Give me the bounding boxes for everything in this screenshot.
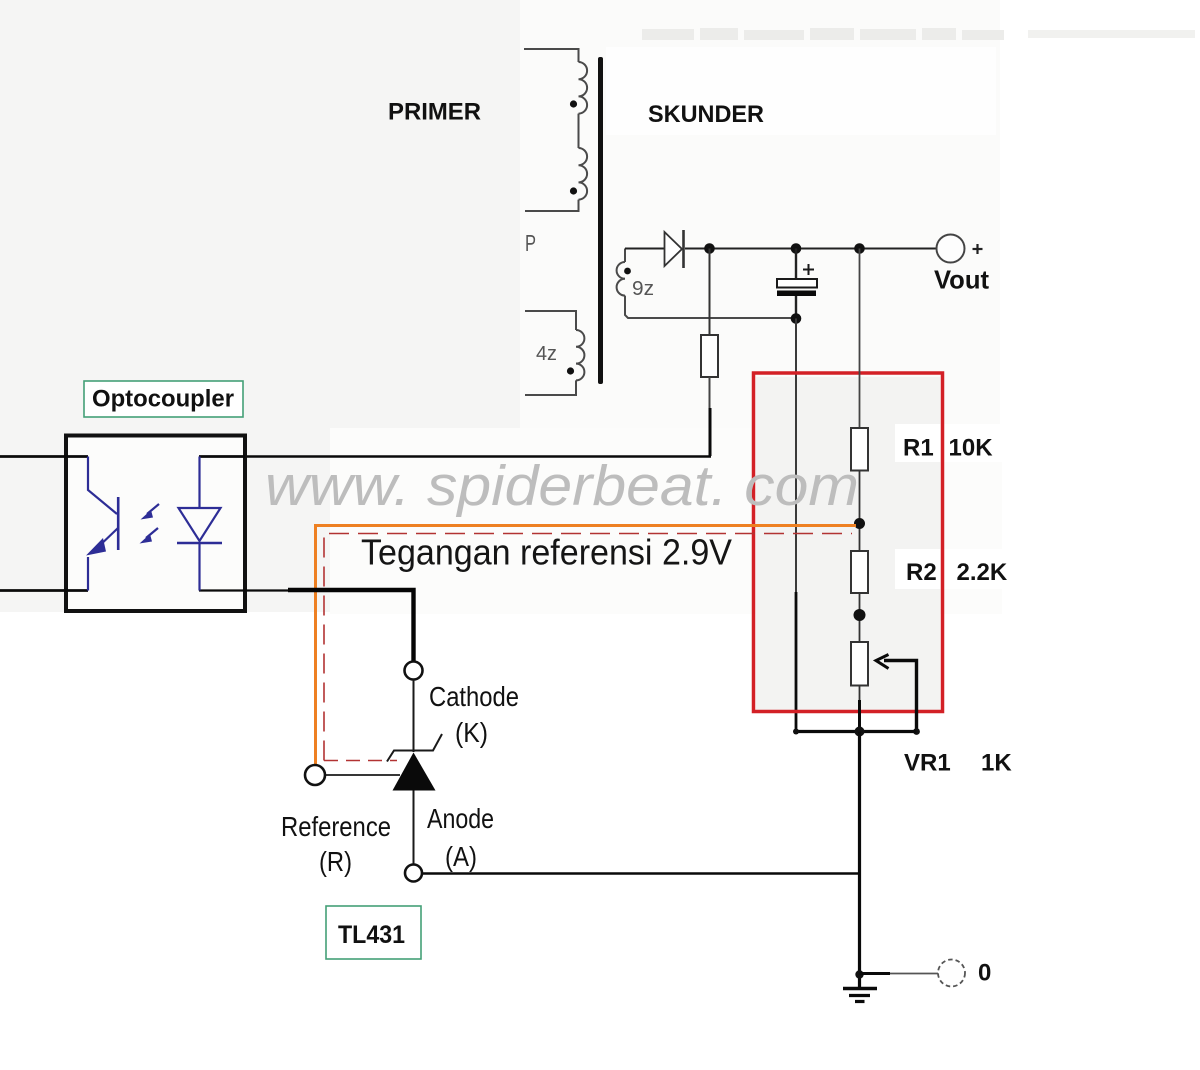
svg-text:R2: R2 <box>906 559 937 586</box>
svg-text:P: P <box>525 230 536 256</box>
wire junction1 down to resistor <box>709 249 711 336</box>
node junction 1 <box>704 243 715 254</box>
svg-text:R1: R1 <box>903 435 934 462</box>
TL431 triangle <box>393 753 436 791</box>
wire junction3 down to R1 <box>859 249 861 429</box>
wire opto top rail <box>245 455 711 458</box>
TL431 label box <box>326 906 421 959</box>
transformer T1 core <box>598 57 603 384</box>
transformer T1 secondary winding (9z) <box>617 249 791 319</box>
potentiometer VR1 <box>851 642 868 686</box>
capacitor C1 <box>777 249 817 319</box>
ground <box>843 989 877 1002</box>
node cap bottom junction <box>791 313 802 324</box>
wire anode <box>413 791 415 865</box>
wire bottom rail <box>796 730 917 733</box>
phase dot lower primary <box>567 367 574 374</box>
node R2-VR1 junction <box>854 609 866 621</box>
svg-text:4z: 4z <box>536 343 557 365</box>
svg-text:Cathode: Cathode <box>429 681 519 712</box>
optocoupler label box <box>84 381 243 417</box>
svg-text:Anode: Anode <box>427 803 494 834</box>
wire opto right bottom <box>199 589 292 591</box>
svg-text:(K): (K) <box>455 717 488 748</box>
wire diode to Vout (main output rail) <box>685 248 936 250</box>
wire VR1 down thick <box>858 700 861 732</box>
svg-text:1K: 1K <box>981 750 1012 777</box>
svg-text:(R): (R) <box>319 846 352 877</box>
optocoupler LED D2 <box>177 457 222 591</box>
svg-text:9z: 9z <box>632 278 654 300</box>
svg-text:10K: 10K <box>949 435 994 462</box>
wire anode rail <box>423 872 860 874</box>
svg-text:0: 0 <box>978 960 991 987</box>
node R1-R2 junction <box>854 518 865 529</box>
svg-text:Vout: Vout <box>934 265 989 295</box>
wire thick down to opto rail <box>709 408 712 456</box>
wire opto right top (inside) <box>199 455 245 458</box>
resistor R feed (to optocoupler) <box>701 335 718 377</box>
wire opto to TL431 thick <box>288 590 414 661</box>
wire cap junction down thick <box>795 592 798 732</box>
optocoupler U1 box <box>66 436 245 612</box>
node ground junction <box>855 970 863 978</box>
red annotation box <box>754 373 943 712</box>
svg-text:Tegangan referensi 2.9V: Tegangan referensi 2.9V <box>361 532 732 573</box>
wire R1 to node <box>859 471 861 552</box>
TL431 reference terminal circle <box>305 765 325 785</box>
orange annotation path <box>316 526 857 777</box>
wire secondary to diode <box>625 248 664 250</box>
phase dot upper primary second <box>570 187 577 194</box>
svg-text:(A): (A) <box>445 841 477 872</box>
wire resistor down <box>709 377 711 410</box>
svg-text:2.2K: 2.2K <box>957 559 1008 586</box>
svg-text:Optocoupler: Optocoupler <box>92 386 234 413</box>
resistor R2 <box>851 551 868 593</box>
node junction 2 <box>791 243 802 254</box>
red dashed reference stub <box>324 760 397 762</box>
diode D1 <box>665 230 684 268</box>
wire cap junction down <box>795 319 797 595</box>
wire opto left bottom <box>0 589 88 592</box>
svg-text:Reference: Reference <box>281 811 391 842</box>
light arrow 2 <box>140 528 159 544</box>
Vout terminal <box>937 235 983 263</box>
wire opto left top <box>0 455 88 458</box>
svg-text:www. spiderbeat. com: www. spiderbeat. com <box>265 454 859 518</box>
svg-text:VR1: VR1 <box>904 750 951 777</box>
transformer T1 primary winding (upper) <box>524 49 587 211</box>
wire cathode to bar <box>413 680 415 753</box>
node bottom rail junction <box>855 727 865 737</box>
VR1 wiper arrow <box>876 655 917 732</box>
svg-text:PRIMER: PRIMER <box>388 99 481 126</box>
wire reference <box>325 774 400 776</box>
TL431 cathode terminal circle <box>405 662 423 680</box>
TL431 anode terminal circle <box>405 865 422 882</box>
wire ground drop <box>858 732 861 989</box>
transformer T1 primary winding (lower, 4z) <box>525 311 584 395</box>
phase dot upper primary <box>570 100 577 107</box>
svg-text:TL431: TL431 <box>338 921 405 949</box>
phase dot secondary <box>624 268 631 275</box>
svg-text:SKUNDER: SKUNDER <box>648 101 764 128</box>
light arrow 1 <box>141 504 160 520</box>
TL431 cathode bar with ticks <box>387 734 442 762</box>
wire VR1 down <box>859 686 861 705</box>
node bottom rail left end <box>793 729 799 735</box>
red dashed annotation path <box>324 534 852 761</box>
wire to 0 terminal <box>860 972 891 975</box>
optocoupler phototransistor Q1 <box>88 457 118 591</box>
resistor R1 <box>851 428 868 471</box>
node junction 3 <box>854 243 865 254</box>
terminal 0 <box>938 960 965 987</box>
phototransistor emitter arrowhead <box>86 538 106 556</box>
wire R2 to node <box>859 593 861 642</box>
node wiper bottom <box>913 728 920 735</box>
